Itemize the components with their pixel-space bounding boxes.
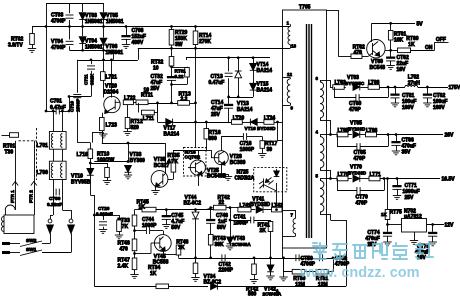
wire low row	[179, 258, 347, 260]
resistor RT41	[270, 220, 272, 222]
svg-text:L723: L723	[106, 123, 118, 129]
diode VT65	[353, 131, 360, 138]
svg-text:L722: L722	[124, 96, 136, 102]
transistor VT60	[367, 40, 385, 58]
svg-text:400V: 400V	[132, 40, 144, 46]
transistor VT45	[154, 235, 171, 252]
svg-text:BYV95B: BYV95B	[71, 180, 91, 186]
dashed filter boundary	[19, 140, 37, 142]
svg-text:50V: 50V	[171, 225, 181, 231]
resistor RT50	[283, 258, 285, 272]
wire degauss feeds	[15, 141, 17, 210]
wire mid rail (B+)	[32, 26, 290, 28]
svg-text:470: 470	[354, 50, 363, 56]
resistor RT11	[133, 102, 136, 104]
svg-text:FTR 1: FTR 1	[10, 190, 15, 203]
svg-text:10: 10	[153, 66, 159, 72]
resistor RT32	[169, 57, 174, 67]
capacitor CT42	[221, 254, 223, 261]
wire opto bottom	[276, 192, 278, 210]
svg-text:4700P: 4700P	[51, 45, 66, 51]
svg-text:uA7812: uA7812	[404, 214, 422, 220]
capacitor C711	[91, 60, 93, 64]
svg-text:39: 39	[267, 147, 273, 153]
diode VT04	[82, 27, 84, 37]
diode VT05	[103, 3, 105, 12]
resistor RT29	[171, 27, 173, 30]
capacitor CT20	[103, 215, 105, 220]
svg-text:RT75: RT75	[390, 210, 402, 216]
capacitor C701	[46, 111, 56, 113]
wire to L710	[77, 142, 90, 144]
wire base row	[173, 150, 206, 152]
inductor L721	[103, 60, 105, 72]
wire 26V row	[334, 134, 337, 136]
svg-text:LT71: LT71	[370, 172, 382, 178]
wire 175V row	[330, 87, 333, 89]
wire mid node	[227, 97, 253, 99]
svg-text:VT16 BYD33D: VT16 BYD33D	[245, 126, 277, 131]
svg-text:CNX62A: CNX62A	[235, 175, 255, 181]
svg-text:1500P: 1500P	[76, 99, 81, 112]
wire bridge lower rail	[70, 50, 114, 52]
svg-text:1N5061: 1N5061	[106, 19, 124, 25]
capacitor C708	[126, 27, 128, 36]
zener VT42	[270, 258, 272, 265]
mains input: resistor RT01	[2, 135, 10, 137]
choke L700	[49, 161, 66, 179]
resistor RT46	[163, 252, 165, 255]
resistor RT10	[90, 163, 107, 165]
svg-text:BA214: BA214	[257, 87, 273, 93]
wire bottom rail	[94, 286, 208, 288]
diode VT34 in rail	[211, 283, 218, 290]
svg-text:ON: ON	[425, 45, 433, 51]
inductor LT20	[232, 120, 243, 125]
wire hot return rail to pin13	[138, 48, 140, 60]
connector arrow left	[48, 219, 52, 223]
svg-text:22: 22	[219, 200, 225, 206]
wire VT60 collector to 5V rail	[371, 23, 373, 42]
svg-text:27uH: 27uH	[408, 80, 421, 86]
inductor L742	[272, 207, 283, 212]
inductor LT63	[333, 85, 344, 90]
wire feedback row	[135, 209, 143, 211]
capacitor CT32	[171, 66, 173, 76]
svg-text:L701: L701	[37, 143, 49, 149]
svg-text:26V: 26V	[445, 133, 455, 139]
svg-text:2K: 2K	[260, 228, 267, 234]
wire choke connections	[53, 111, 55, 132]
svg-text:L700: L700	[37, 170, 49, 176]
svg-text:3W: 3W	[175, 42, 183, 48]
diode VT33	[128, 143, 130, 162]
svg-text:12M: 12M	[318, 282, 328, 288]
svg-text:C710: C710	[70, 101, 75, 112]
svg-text:LT66: LT66	[366, 128, 378, 134]
inductor L722	[123, 100, 133, 105]
wire on/off step	[434, 42, 436, 50]
svg-text:270K: 270K	[199, 39, 211, 45]
svg-text:BC548: BC548	[370, 65, 386, 71]
svg-text:OFF: OFF	[436, 37, 446, 43]
ground VT28 emitter	[221, 165, 223, 174]
svg-text:0.22uF: 0.22uF	[47, 202, 62, 208]
svg-text:560: 560	[248, 292, 257, 296]
capacitor C716	[221, 137, 223, 151]
ground top of VT10 branch	[99, 133, 107, 135]
connector arrow right	[69, 219, 73, 223]
capacitor CT71	[397, 179, 399, 186]
svg-text:CQ70R: CQ70R	[185, 155, 201, 160]
wire VT33 left	[94, 161, 128, 163]
wire primary ground rail left	[90, 195, 94, 197]
resistor RT45	[142, 207, 156, 212]
svg-text:390: 390	[208, 136, 217, 142]
resistor RT12	[127, 102, 129, 117]
svg-text:175V: 175V	[449, 85, 460, 91]
diode VT15	[250, 83, 257, 90]
capacitor CT41	[229, 219, 232, 222]
inductor LT70	[337, 176, 348, 181]
transformer primary winding 1-13	[290, 24, 292, 26]
capacitor CT75	[432, 225, 434, 232]
diode VT16	[242, 122, 250, 124]
capacitor CT51	[318, 254, 320, 261]
capacitor CT66	[396, 135, 398, 142]
transistor VT35	[151, 171, 168, 188]
resistor RT14	[195, 27, 197, 32]
svg-text:BC369: BC369	[230, 160, 246, 166]
capacitor C744	[135, 230, 147, 232]
wire 5V feed from transformer top	[327, 10, 339, 12]
wire VT20 collector	[111, 60, 113, 98]
transistor VT20	[104, 96, 120, 112]
diode VT14	[253, 58, 255, 64]
svg-text:BA214: BA214	[164, 131, 180, 137]
svg-text:35V: 35V	[402, 150, 412, 156]
capacitor CT65 bypass	[337, 135, 339, 147]
transformer feedback winding	[283, 210, 296, 212]
svg-text:470P: 470P	[354, 156, 366, 162]
diode VT63	[353, 84, 360, 91]
zener VT44	[195, 210, 197, 213]
optocoupler N715 box	[184, 148, 207, 177]
svg-text:1000P: 1000P	[234, 220, 249, 226]
wire VT28 base	[206, 150, 211, 152]
resistor RT31	[170, 65, 173, 68]
inductor L710	[88, 149, 93, 159]
svg-text:SW2: SW2	[26, 238, 37, 244]
svg-text:3.9/TV: 3.9/TV	[8, 43, 23, 49]
svg-text:FTR 2: FTR 2	[29, 190, 34, 203]
svg-text:BY233D: BY233D	[348, 127, 366, 132]
capacitor CT13	[228, 58, 230, 72]
svg-text:C700: C700	[49, 196, 61, 202]
svg-text:1N5061: 1N5061	[85, 45, 103, 51]
svg-text:1K: 1K	[408, 42, 415, 48]
svg-text:LT20: LT20	[233, 116, 245, 122]
wire top rail	[46, 3, 104, 5]
svg-text:A: A	[276, 290, 280, 296]
svg-text:BC327: BC327	[154, 163, 170, 169]
resistor RT61	[390, 23, 392, 30]
svg-text:25V: 25V	[151, 86, 161, 92]
wire main node row	[148, 103, 178, 105]
transistor VT25	[190, 160, 205, 175]
svg-text:25V: 25V	[405, 195, 415, 201]
diode VT03	[82, 3, 84, 12]
svg-text:820: 820	[131, 125, 140, 131]
inductor LT66	[366, 132, 377, 137]
resistor RT62	[351, 54, 362, 59]
svg-text:BYW95C: BYW95C	[345, 81, 365, 86]
svg-text:332K: 332K	[90, 73, 95, 85]
svg-text:L711: L711	[143, 116, 154, 122]
inductor L741	[238, 207, 251, 212]
svg-text:BY360: BY360	[130, 158, 146, 164]
wire ctrl rail	[186, 57, 270, 59]
wire snubber rail	[77, 60, 138, 62]
svg-text:1000P: 1000P	[240, 147, 255, 153]
plug pin upper	[2, 242, 10, 245]
svg-text:50V: 50V	[217, 225, 227, 231]
ground RT02	[28, 48, 36, 50]
capacitor CT74	[387, 225, 389, 232]
resistor RT48	[132, 239, 137, 251]
wire box bottom to low row	[282, 248, 284, 258]
svg-text:16.5V: 16.5V	[442, 177, 456, 183]
svg-text:160V: 160V	[402, 105, 414, 111]
inductor LT68	[368, 85, 379, 90]
inductor LT71	[369, 176, 380, 181]
diode VT13	[238, 58, 240, 71]
resistor RT13	[178, 101, 190, 106]
svg-text:1: 1	[287, 21, 290, 26]
svg-text:BYD33D: BYD33D	[250, 202, 270, 208]
svg-text:12: 12	[287, 72, 292, 77]
wire right-side verticals	[330, 80, 332, 87]
svg-text:470P: 470P	[356, 201, 368, 207]
capacitor CT62 100uF	[427, 87, 429, 94]
inductor L762	[405, 85, 418, 87]
svg-text:LT24: LT24	[264, 116, 276, 122]
capacitor C700	[55, 189, 57, 196]
ground VT35 emitter	[155, 187, 157, 191]
svg-text:470P: 470P	[349, 107, 361, 113]
choke L701	[49, 132, 66, 150]
wire left vertical rail	[46, 3, 48, 111]
transformer left winding 12-9	[283, 77, 291, 79]
switch SW2	[10, 243, 20, 245]
svg-text:L741: L741	[239, 203, 251, 209]
transformer T705 outline	[283, 10, 327, 248]
capacitor C710	[77, 60, 79, 93]
svg-text:2CW48A: 2CW48A	[232, 242, 251, 247]
svg-text:BYD33D: BYD33D	[348, 171, 367, 176]
resistor RT43	[208, 235, 213, 246]
wire RT14 column down	[195, 58, 197, 148]
resistor RT34	[156, 284, 169, 289]
svg-text:BZ-6C2: BZ-6C2	[204, 280, 222, 286]
zener VT43	[230, 208, 232, 237]
capacitor CT14	[228, 97, 230, 104]
svg-text:16V: 16V	[397, 67, 407, 73]
svg-text:12M: 12M	[295, 282, 305, 288]
svg-text:12V: 12V	[445, 223, 455, 229]
svg-text:470: 470	[120, 246, 129, 252]
capacitor CT60 bypass	[334, 87, 336, 98]
svg-text:RT31: RT31	[175, 69, 187, 74]
svg-text:www. cndzz. com: www. cndzz. com	[299, 265, 420, 281]
resistor RT21	[103, 215, 119, 217]
svg-text:25V: 25V	[211, 112, 221, 118]
wire to plugs	[53, 192, 55, 215]
svg-text:C711: C711	[84, 74, 89, 85]
optocoupler N725 box	[254, 167, 287, 191]
resistor RT42	[214, 205, 227, 210]
svg-text:5V: 5V	[417, 22, 424, 28]
resistor RT51	[316, 269, 328, 274]
svg-text:1K: 1K	[139, 205, 146, 211]
diode VT10	[90, 163, 92, 168]
svg-text:T30: T30	[5, 149, 14, 155]
wire LT24 to transformer	[277, 122, 279, 141]
capacitor CT50	[295, 254, 297, 261]
resistor RT16	[205, 121, 208, 124]
capacitor C745	[166, 210, 168, 215]
resistor RT47	[134, 251, 136, 258]
diode VT70	[353, 175, 360, 182]
wire 16.5V row	[334, 178, 337, 180]
wire gnd stub	[92, 132, 103, 134]
svg-text:L710: L710	[77, 152, 89, 158]
inductor L711	[138, 103, 140, 113]
regulator N702 uA7812	[388, 224, 402, 226]
ground regulator	[414, 232, 416, 241]
wire emitter node	[385, 50, 398, 52]
svg-text:0.22: 0.22	[175, 74, 184, 79]
svg-text:13: 13	[291, 44, 297, 49]
resistor RT33	[134, 210, 136, 215]
resistor RT02	[32, 27, 34, 34]
resistor RT17	[262, 137, 264, 141]
ground low row left	[283, 258, 285, 277]
svg-text:BA214: BA214	[237, 107, 253, 113]
capacitor CT61	[395, 87, 397, 94]
svg-text:CT20: CT20	[98, 206, 110, 211]
resistor RT42b 560	[254, 258, 256, 264]
resistor RT75	[387, 179, 389, 210]
svg-text:1K: 1K	[178, 245, 185, 251]
capacitor CT04	[69, 27, 71, 40]
svg-text:T705: T705	[299, 4, 311, 10]
svg-text:1K: 1K	[381, 212, 387, 217]
svg-text:0.47uF: 0.47uF	[209, 80, 225, 86]
transistor VT28	[214, 151, 228, 165]
svg-text:2.2: 2.2	[181, 97, 188, 103]
svg-text:LT42: LT42	[272, 203, 284, 209]
svg-text:LT68: LT68	[368, 80, 380, 86]
resistor RT35	[173, 150, 175, 160]
svg-text:100/2W: 100/2W	[97, 158, 115, 164]
svg-text:10K: 10K	[394, 37, 404, 43]
plug pin lower	[2, 251, 10, 254]
svg-text:1000P: 1000P	[142, 223, 157, 229]
degauss coil box	[4, 215, 34, 234]
wire C701 node	[69, 96, 91, 98]
svg-text:1N5061: 1N5061	[85, 19, 103, 25]
wire VT33 node	[102, 143, 165, 145]
capacitor C746	[210, 208, 212, 219]
diode VT17	[157, 103, 159, 122]
inductor LT24	[264, 120, 274, 125]
resistor RT60	[398, 48, 411, 53]
svg-text:39K: 39K	[215, 242, 225, 248]
capacitor CT03	[69, 3, 71, 13]
diode VT41	[251, 209, 255, 211]
svg-text:160V: 160V	[433, 105, 445, 111]
transformer core	[306, 24, 308, 238]
svg-text:C701: C701	[50, 99, 62, 105]
optocoupler N725 phototransistor	[263, 179, 265, 188]
svg-text:BZ-6C2: BZ-6C2	[184, 200, 202, 206]
svg-text:1K: 1K	[150, 271, 157, 277]
svg-text:BA214: BA214	[257, 68, 273, 74]
inductor L723	[102, 113, 104, 118]
optocoupler N725 LED	[274, 171, 280, 177]
svg-text:D2394: D2394	[104, 90, 119, 96]
svg-text:2.4K: 2.4K	[118, 263, 129, 269]
capacitor CT70 bypass	[337, 179, 339, 191]
capacitor CT62 22uF	[390, 50, 392, 56]
resistor below VT44	[195, 258, 197, 263]
svg-text:10: 10	[144, 87, 150, 93]
diode VT06	[103, 27, 105, 38]
inductor LT65	[337, 132, 348, 137]
svg-text:SW1: SW1	[26, 247, 37, 253]
switch SW1	[10, 252, 20, 254]
svg-text:2200P: 2200P	[219, 268, 234, 274]
svg-text:4700P: 4700P	[51, 19, 66, 25]
